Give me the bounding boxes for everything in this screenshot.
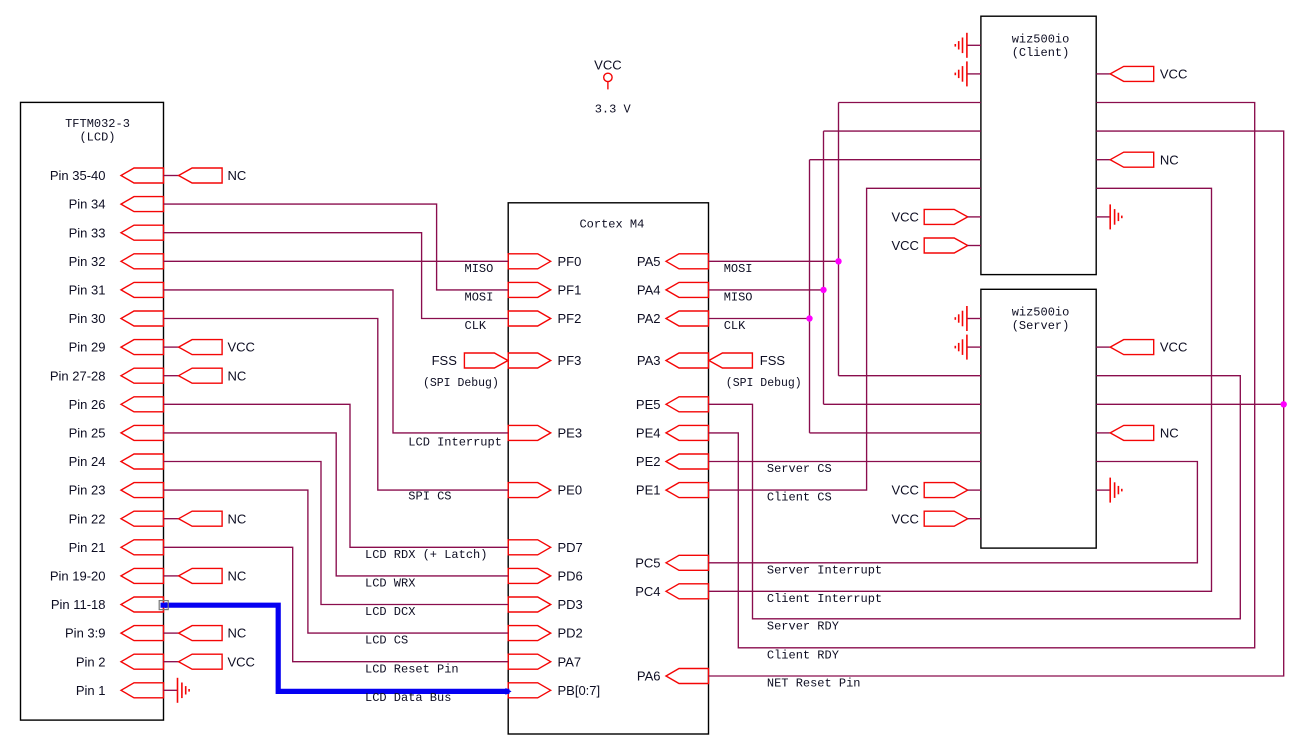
svg-text:(LCD): (LCD) xyxy=(79,130,115,144)
wire Pin25 to PD6 (LCD WRX) xyxy=(164,433,509,576)
U2 pin PA7 xyxy=(508,654,581,669)
svg-text:PF0: PF0 xyxy=(558,254,582,269)
port NC at wiz block right row 432.9 xyxy=(1096,425,1178,440)
svg-text:PE1: PE1 xyxy=(636,483,661,498)
net label LCD Data Bus xyxy=(365,691,451,705)
svg-text:PF3: PF3 xyxy=(558,353,582,368)
U1 pin Pin 23 xyxy=(69,483,164,498)
wire server RDY pin to NET vertical xyxy=(1096,403,1284,405)
svg-text:VCC: VCC xyxy=(891,238,918,253)
U2 pin PE3 xyxy=(508,425,582,440)
port VCC at LCD pin row 6 xyxy=(164,340,255,355)
U2 pin PB[0:7] xyxy=(508,683,600,698)
svg-text:PD6: PD6 xyxy=(558,569,583,584)
svg-text:VCC: VCC xyxy=(1160,67,1187,82)
net label LCD DCX xyxy=(365,605,415,619)
wire MOSI net PA5 to client+server xyxy=(709,103,981,376)
net label LCD CS xyxy=(365,634,408,648)
svg-text:PB[0:7]: PB[0:7] xyxy=(558,683,601,698)
svg-text:Pin 23: Pin 23 xyxy=(69,483,106,498)
svg-text:VCC: VCC xyxy=(891,210,918,225)
svg-text:(Server): (Server) xyxy=(1012,319,1070,333)
svg-text:LCD WRX: LCD WRX xyxy=(365,577,415,591)
net label SPI CS xyxy=(408,489,451,503)
U2 pin PC5 xyxy=(635,555,708,570)
svg-text:CLK: CLK xyxy=(465,319,487,333)
svg-text:CLK: CLK xyxy=(724,319,746,333)
wire Server RDY PE5 to server INT pin xyxy=(709,376,1241,619)
svg-text:LCD DCX: LCD DCX xyxy=(365,605,415,619)
ground at wiz block left row 45.3 xyxy=(955,33,981,58)
svg-text:MISO: MISO xyxy=(724,291,753,305)
wire Client Interrupt PC4 to client right pin xyxy=(709,188,1212,591)
svg-text:Pin 35-40: Pin 35-40 xyxy=(50,168,106,183)
svg-text:Pin 33: Pin 33 xyxy=(69,225,106,240)
wire NET Reset Pin PA6 to client RDY pin xyxy=(709,131,1284,676)
port NC at LCD pin row 16 xyxy=(164,626,247,641)
U2 pin PF1 xyxy=(508,282,581,297)
svg-text:Cortex M4: Cortex M4 xyxy=(579,218,644,232)
svg-text:Pin 26: Pin 26 xyxy=(69,397,106,412)
U2 pin PE2 xyxy=(636,454,709,469)
IC U2 Cortex M4 block outline xyxy=(508,203,708,734)
svg-text:PD3: PD3 xyxy=(558,597,583,612)
net label Server Interrupt xyxy=(767,563,882,577)
svg-text:LCD Reset Pin: LCD Reset Pin xyxy=(365,662,459,676)
U1 pin Pin 22 xyxy=(69,511,164,526)
wire Pin30 to PE0 (SPI CS) xyxy=(164,319,509,491)
junction dot CLK xyxy=(806,315,812,321)
svg-text:PC4: PC4 xyxy=(635,584,660,599)
wire Server Interrupt PC5 to server right pin xyxy=(709,462,1198,563)
net label Server RDY xyxy=(767,619,839,633)
net label Client RDY xyxy=(767,648,839,662)
svg-text:wiz500io: wiz500io xyxy=(1012,306,1070,320)
U1 pin Pin 1 xyxy=(76,683,164,698)
wire Pin34 to PF1 (MOSI) xyxy=(164,204,509,290)
U2 title Cortex M4 xyxy=(579,218,644,232)
U3 title wiz500io (Client) xyxy=(1012,32,1070,60)
U2 pin PF3 xyxy=(508,353,581,368)
U1 pin Pin 29 xyxy=(69,340,164,355)
ground at wiz block right row 490.1 xyxy=(1096,478,1122,503)
U2 pin PA5 xyxy=(637,254,709,269)
bus LCD Data Bus Pin11-18 to PB[0:7] (blue) xyxy=(161,602,512,695)
svg-text:PA6: PA6 xyxy=(637,669,661,684)
U1 pin Pin 3:9 xyxy=(65,626,163,641)
svg-text:Pin 32: Pin 32 xyxy=(69,254,106,269)
U2 pin PA6 xyxy=(637,669,709,684)
U2 pin PD6 xyxy=(508,568,583,583)
U1 pin Pin 26 xyxy=(69,397,164,412)
port NC at LCD pin row 7 xyxy=(164,368,247,383)
svg-text:(SPI Debug): (SPI Debug) xyxy=(726,377,802,390)
svg-text:VCC: VCC xyxy=(228,340,255,355)
svg-text:NC: NC xyxy=(1160,152,1179,167)
wire Pin31 to PE3 (LCD Interrupt) xyxy=(164,290,509,433)
port VCC into wiz block at row 216.9 xyxy=(891,209,980,224)
U2 pin PD3 xyxy=(508,597,583,612)
svg-text:PE0: PE0 xyxy=(558,483,583,498)
net label NET Reset Pin xyxy=(767,677,861,691)
net label Client Interrupt xyxy=(767,592,882,606)
U2 pin PF2 xyxy=(508,311,581,326)
junction dot MISO xyxy=(820,287,826,293)
port VCC at LCD pin row 17 xyxy=(164,654,255,669)
net label MISO xyxy=(724,291,753,305)
svg-text:Server CS: Server CS xyxy=(767,462,832,476)
svg-text:NC: NC xyxy=(1160,426,1179,441)
U1 pin Pin 25 xyxy=(69,425,164,440)
U1 pin Pin 30 xyxy=(69,311,164,326)
svg-text:3.3 V: 3.3 V xyxy=(595,103,632,117)
IC U1 TFTM032-3 LCD block outline xyxy=(21,102,164,720)
port VCC at wiz block right row 73.9 xyxy=(1096,66,1187,81)
svg-text:NET Reset Pin: NET Reset Pin xyxy=(767,677,861,691)
svg-text:PF1: PF1 xyxy=(558,283,582,298)
wire Server CS PE2 to server xyxy=(709,461,981,463)
net label Server CS xyxy=(767,462,832,476)
svg-text:VCC: VCC xyxy=(228,654,255,669)
U2 pin PA4 xyxy=(637,282,709,297)
U1 pin Pin 34 xyxy=(69,197,164,212)
U2 pin PC4 xyxy=(635,584,708,599)
IC U4 wiz500io Server block outline xyxy=(981,289,1096,548)
port VCC into wiz block at row 245.5 xyxy=(891,238,980,253)
port NC at LCD pin row 12 xyxy=(164,511,247,526)
svg-text:Pin 3:9: Pin 3:9 xyxy=(65,626,105,641)
svg-text:LCD CS: LCD CS xyxy=(365,634,408,648)
svg-text:Pin 34: Pin 34 xyxy=(69,197,106,212)
svg-text:Server RDY: Server RDY xyxy=(767,619,839,633)
svg-text:PE5: PE5 xyxy=(636,397,661,412)
wire Pin24 to PD3 (LCD DCX) xyxy=(164,462,509,605)
svg-text:Pin 29: Pin 29 xyxy=(69,340,106,355)
port VCC into wiz block at row 518.7 xyxy=(891,511,980,526)
svg-text:Pin 31: Pin 31 xyxy=(69,283,106,298)
U2 pin PD2 xyxy=(508,626,583,641)
unconnected-square marker at Pin 11-18 xyxy=(159,601,168,610)
wire Pin26 to PD7 (LCD RDX) xyxy=(164,404,509,547)
svg-text:MOSI: MOSI xyxy=(724,262,753,276)
wire Pin23 to PD2 (LCD CS) xyxy=(164,490,509,633)
net label Client CS xyxy=(767,491,832,505)
junction dot MOSI xyxy=(835,258,841,264)
wire Pin21 to PA7 (LCD Reset Pin) xyxy=(164,547,509,661)
port NC at LCD pin row 0 xyxy=(164,168,247,183)
svg-text:TFTM032-3: TFTM032-3 xyxy=(65,117,130,131)
port FSS at U2 PF3 xyxy=(432,353,508,368)
svg-text:FSS: FSS xyxy=(432,353,458,368)
net label MOSI xyxy=(724,262,753,276)
U2 pin PE4 xyxy=(636,425,709,440)
wire Pin32 to PF0 (MISO) xyxy=(164,260,509,262)
svg-text:Pin 21: Pin 21 xyxy=(69,540,106,555)
net label CLK xyxy=(724,319,746,333)
IC U3 wiz500io Client block outline xyxy=(981,16,1096,274)
U1 pin Pin 19-20 xyxy=(50,568,164,583)
svg-text:VCC: VCC xyxy=(594,58,621,73)
U1 pin Pin 21 xyxy=(69,540,164,555)
svg-text:FSS: FSS xyxy=(760,353,786,368)
wire Pin33 to PF2 (CLK) xyxy=(164,233,509,319)
U1 title TFTM032-3 (LCD) xyxy=(65,117,130,144)
net label MOSI xyxy=(465,291,494,305)
svg-text:PA3: PA3 xyxy=(637,353,661,368)
U1 pin Pin 35-40 xyxy=(50,168,164,183)
net label CLK xyxy=(465,319,487,333)
svg-text:PE3: PE3 xyxy=(558,426,583,441)
U2 pin PE1 xyxy=(636,483,709,498)
svg-text:Pin 22: Pin 22 xyxy=(69,511,106,526)
wire CLK net PA2 to client+server xyxy=(709,160,981,433)
svg-text:Pin 24: Pin 24 xyxy=(69,454,106,469)
U2 pin PD7 xyxy=(508,540,583,555)
svg-text:Client RDY: Client RDY xyxy=(767,648,839,662)
label (SPI Debug) left xyxy=(423,377,499,390)
U2 pin PA3 xyxy=(637,353,709,368)
svg-text:(SPI Debug): (SPI Debug) xyxy=(423,377,499,390)
wire Client CS PE1 to client xyxy=(709,188,981,490)
svg-text:MISO: MISO xyxy=(465,262,494,276)
svg-text:PD7: PD7 xyxy=(558,540,583,555)
svg-text:LCD RDX (+ Latch): LCD RDX (+ Latch) xyxy=(365,548,487,562)
U2 pin PF0 xyxy=(508,254,581,269)
svg-text:PA5: PA5 xyxy=(637,254,661,269)
svg-text:NC: NC xyxy=(228,168,247,183)
svg-text:Pin 25: Pin 25 xyxy=(69,426,106,441)
svg-text:VCC: VCC xyxy=(1160,340,1187,355)
svg-text:MOSI: MOSI xyxy=(465,291,494,305)
svg-text:wiz500io: wiz500io xyxy=(1012,32,1070,46)
svg-text:PD2: PD2 xyxy=(558,626,583,641)
svg-text:Pin 19-20: Pin 19-20 xyxy=(50,569,106,584)
svg-text:PA7: PA7 xyxy=(558,654,582,669)
net label LCD Reset Pin xyxy=(365,662,459,676)
wire MISO net PA4 to client+server xyxy=(709,131,981,404)
svg-text:Pin 2: Pin 2 xyxy=(76,654,106,669)
svg-text:NC: NC xyxy=(228,368,247,383)
svg-text:Client Interrupt: Client Interrupt xyxy=(767,592,882,606)
svg-text:LCD Interrupt: LCD Interrupt xyxy=(408,435,502,449)
power symbol VCC 3.3V xyxy=(594,58,631,117)
net label LCD Interrupt xyxy=(408,435,502,449)
U2 pin PE5 xyxy=(636,397,709,412)
ground at wiz block left row 318.5 xyxy=(955,306,981,331)
port NC at wiz block right row 159.7 xyxy=(1096,152,1178,167)
net label LCD RDX (+ Latch) xyxy=(365,548,487,562)
svg-text:NC: NC xyxy=(228,626,247,641)
U1 pin Pin 2 xyxy=(76,654,164,669)
svg-text:PA2: PA2 xyxy=(637,311,661,326)
U2 pin PA2 xyxy=(637,311,709,326)
U1 pin Pin 33 xyxy=(69,225,164,240)
ground at wiz block right row 216.9 xyxy=(1096,204,1122,229)
U4 title wiz500io (Server) xyxy=(1012,306,1070,334)
svg-text:PF2: PF2 xyxy=(558,311,582,326)
U1 pin Pin 24 xyxy=(69,454,164,469)
ground at wiz block left row 347.1 xyxy=(955,335,981,360)
svg-text:(Client): (Client) xyxy=(1012,46,1070,60)
svg-text:Client CS: Client CS xyxy=(767,491,832,505)
net label MISO xyxy=(465,262,494,276)
svg-text:LCD Data Bus: LCD Data Bus xyxy=(365,691,451,705)
U1 pin Pin 31 xyxy=(69,282,164,297)
svg-text:PE2: PE2 xyxy=(636,454,661,469)
port NC at LCD pin row 14 xyxy=(164,568,247,583)
svg-text:PE4: PE4 xyxy=(636,426,661,441)
svg-text:Pin 11-18: Pin 11-18 xyxy=(51,597,106,612)
svg-text:NC: NC xyxy=(228,511,247,526)
svg-text:PA4: PA4 xyxy=(637,283,661,298)
label (SPI Debug) right xyxy=(726,377,802,390)
svg-text:PC5: PC5 xyxy=(635,555,660,570)
U1 pin Pin 32 xyxy=(69,254,164,269)
svg-text:Pin 30: Pin 30 xyxy=(69,311,106,326)
ground at U1 Pin 1 xyxy=(164,678,190,703)
svg-text:Server Interrupt: Server Interrupt xyxy=(767,563,882,577)
net label LCD WRX xyxy=(365,577,415,591)
U2 pin PE0 xyxy=(508,483,582,498)
svg-text:VCC: VCC xyxy=(891,483,918,498)
svg-text:NC: NC xyxy=(228,569,247,584)
svg-text:SPI CS: SPI CS xyxy=(408,489,451,503)
U1 pin Pin 27-28 xyxy=(50,368,164,383)
port FSS at U2 PA3 xyxy=(709,353,786,368)
svg-text:Pin 27-28: Pin 27-28 xyxy=(50,368,106,383)
ground at wiz block left row 73.9 xyxy=(955,61,981,86)
wire Client RDY PE4 to client INT pin xyxy=(709,103,1255,648)
svg-text:Pin 1: Pin 1 xyxy=(76,683,106,698)
junction dot at NET/server-RDY tee xyxy=(1281,401,1287,407)
U1 pin Pin 11-18 xyxy=(51,597,164,612)
port VCC at wiz block right row 347.1 xyxy=(1096,340,1187,355)
svg-text:VCC: VCC xyxy=(891,511,918,526)
port VCC into wiz block at row 490.1 xyxy=(891,483,980,498)
